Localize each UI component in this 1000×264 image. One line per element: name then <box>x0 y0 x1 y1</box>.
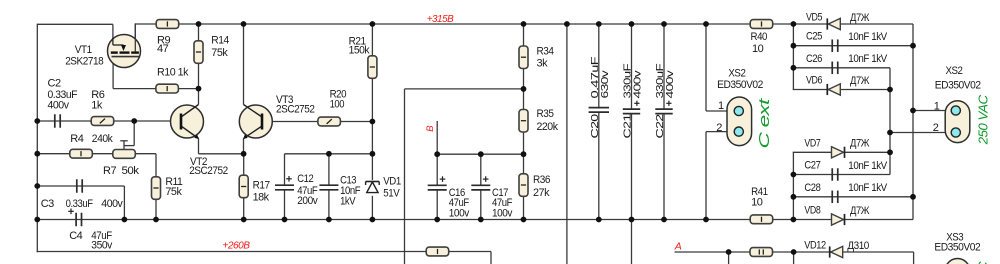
svg-text:R40: R40 <box>751 31 768 43</box>
svg-text:Д7Ж: Д7Ж <box>850 75 869 87</box>
svg-text:R10 1k: R10 1k <box>157 67 189 79</box>
svg-text:Д7Ж: Д7Ж <box>850 12 869 24</box>
svg-text:47: 47 <box>157 43 169 55</box>
svg-text:VT1: VT1 <box>75 44 92 56</box>
svg-text:C22: C22 <box>654 114 666 139</box>
svg-text:C27: C27 <box>804 160 820 172</box>
svg-text:10: 10 <box>752 43 764 55</box>
svg-text:VD7: VD7 <box>804 137 820 149</box>
svg-text:ED350V02: ED350V02 <box>935 80 981 92</box>
svg-text:VD5: VD5 <box>806 12 822 24</box>
svg-text:C20: C20 <box>589 114 601 139</box>
svg-text:630v: 630v <box>599 69 611 98</box>
svg-text:C25: C25 <box>806 31 822 43</box>
svg-text:50k: 50k <box>122 165 140 177</box>
svg-text:100: 100 <box>330 99 345 111</box>
svg-text:C21: C21 <box>622 114 634 139</box>
svg-text:100v: 100v <box>449 207 470 219</box>
svg-text:R36: R36 <box>533 174 550 186</box>
svg-text:XS2: XS2 <box>728 67 745 79</box>
svg-text:75k: 75k <box>165 186 182 198</box>
svg-text:XS2: XS2 <box>946 65 963 77</box>
svg-text:VD8: VD8 <box>804 205 820 217</box>
svg-text:A: A <box>674 241 682 253</box>
svg-text:R35: R35 <box>537 108 554 120</box>
svg-text:Д310: Д310 <box>847 240 869 252</box>
svg-text:2SC2752: 2SC2752 <box>189 165 228 177</box>
svg-text:R14: R14 <box>211 35 229 47</box>
svg-text:1: 1 <box>934 100 940 112</box>
svg-text:1: 1 <box>718 100 724 112</box>
svg-text:10: 10 <box>751 197 763 209</box>
svg-text:27k: 27k <box>533 187 550 199</box>
svg-text:+260В: +260В <box>223 240 251 251</box>
svg-text:1k: 1k <box>91 99 103 111</box>
svg-text:Д7Ж: Д7Ж <box>850 138 869 150</box>
svg-text:2SK2718: 2SK2718 <box>65 56 103 68</box>
svg-text:18k: 18k <box>253 191 270 203</box>
svg-text:240k: 240k <box>92 133 113 145</box>
svg-text:400v: 400v <box>48 99 70 111</box>
svg-text:400v: 400v <box>664 69 676 98</box>
svg-text:R17: R17 <box>253 179 270 191</box>
svg-text:C12: C12 <box>297 173 313 185</box>
svg-text:0.33uF: 0.33uF <box>66 198 94 210</box>
svg-text:VD1: VD1 <box>383 175 401 187</box>
svg-text:ED350V02: ED350V02 <box>717 79 763 91</box>
svg-text:R4: R4 <box>70 133 83 145</box>
svg-text:ED350V02: ED350V02 <box>934 241 980 253</box>
svg-text:C28: C28 <box>804 182 820 194</box>
svg-text:10nF 1kV: 10nF 1kV <box>848 182 888 194</box>
svg-text:1kV: 1kV <box>340 195 356 207</box>
svg-text:100v: 100v <box>492 207 513 219</box>
svg-text:250 VAC: 250 VAC <box>976 94 991 145</box>
svg-text:C4: C4 <box>69 230 82 242</box>
svg-text:10nF 1kV: 10nF 1kV <box>848 53 888 65</box>
svg-text:400v: 400v <box>101 198 123 210</box>
svg-text:51V: 51V <box>383 187 400 199</box>
svg-text:400v: 400v <box>632 69 644 98</box>
svg-text:+315В: +315В <box>427 14 454 25</box>
svg-text:R7: R7 <box>103 165 116 177</box>
svg-text:75k: 75k <box>211 47 228 59</box>
svg-text:Д7Ж: Д7Ж <box>850 205 869 217</box>
svg-text:150k: 150k <box>349 44 370 56</box>
svg-text:350v: 350v <box>91 240 112 252</box>
svg-text:2: 2 <box>933 122 939 134</box>
svg-text:10nF 1kV: 10nF 1kV <box>848 31 888 43</box>
svg-text:VD12: VD12 <box>804 240 826 252</box>
svg-text:3k: 3k <box>537 58 549 70</box>
svg-text:220k: 220k <box>537 121 559 133</box>
svg-text:C ext: C ext <box>756 98 773 149</box>
svg-text:VD6: VD6 <box>806 75 822 87</box>
svg-text:10nF 1kV: 10nF 1kV <box>848 160 888 172</box>
svg-text:C26: C26 <box>806 53 822 65</box>
svg-text:200v: 200v <box>297 195 318 207</box>
svg-text:2: 2 <box>716 122 722 134</box>
svg-text:C3: C3 <box>41 198 54 210</box>
svg-text:R34: R34 <box>537 45 554 57</box>
svg-text:C2: C2 <box>48 78 61 90</box>
svg-text:2SC2752: 2SC2752 <box>276 103 315 115</box>
